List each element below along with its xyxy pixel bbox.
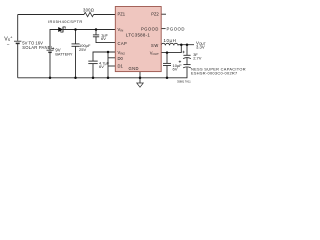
svg-text:BATTERY: BATTERY (55, 52, 73, 57)
svg-text:6V: 6V (99, 64, 104, 69)
svg-text:IR05H40CSPTR: IR05H40CSPTR (48, 19, 83, 24)
svg-text:PGOOD: PGOOD (141, 27, 159, 32)
svg-text:25V: 25V (79, 47, 86, 52)
svg-text:SOLAR PANEL: SOLAR PANEL (22, 45, 53, 50)
svg-text:D1: D1 (118, 63, 124, 68)
svg-text:PZ1: PZ1 (118, 12, 126, 17)
svg-text:PZ2: PZ2 (151, 12, 159, 17)
svg-text:VOUT: VOUT (150, 50, 159, 56)
svg-text:6V: 6V (101, 36, 106, 41)
svg-text:PGOOD: PGOOD (167, 27, 186, 32)
svg-text:ESHSR-0003C0-002R7: ESHSR-0003C0-002R7 (191, 71, 238, 76)
svg-text:300Ω: 300Ω (83, 7, 94, 12)
svg-text:GND: GND (129, 66, 139, 71)
svg-text:35881 TA11: 35881 TA11 (177, 79, 191, 83)
svg-text:VIN: VIN (118, 27, 124, 33)
svg-text:3.3V: 3.3V (196, 45, 205, 50)
svg-text:LTC3588-1: LTC3588-1 (126, 32, 151, 37)
svg-text:6V: 6V (173, 67, 178, 72)
svg-text:10µH: 10µH (164, 38, 177, 43)
svg-text:2.7V: 2.7V (193, 56, 202, 61)
svg-text:CAP: CAP (118, 41, 128, 46)
svg-text:VIN2: VIN2 (118, 50, 126, 56)
svg-text:VS+: VS+ (4, 35, 13, 43)
svg-text:D0: D0 (118, 56, 124, 61)
svg-text:−: − (7, 44, 10, 49)
svg-text:SW: SW (151, 43, 159, 48)
